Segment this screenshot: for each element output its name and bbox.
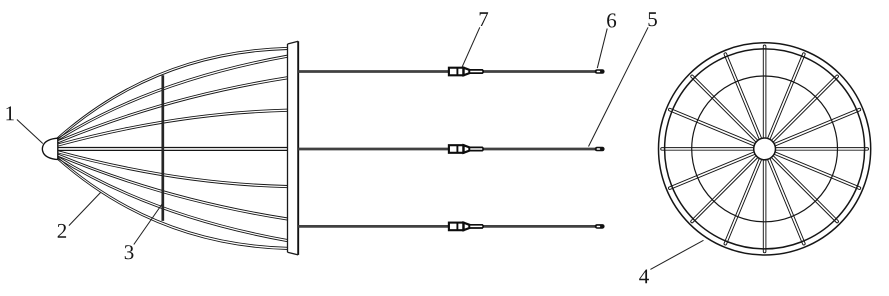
wheel spoke 3 xyxy=(771,75,839,143)
wheel spoke 9 xyxy=(763,159,766,253)
label 4 xyxy=(639,269,649,283)
rib k1 bottom (double line) xyxy=(57,156,289,242)
leader line 7 xyxy=(462,27,480,67)
leader line 5 xyxy=(589,27,649,146)
leader line 4 xyxy=(650,240,703,269)
connector sleeve 7 on rod 2 xyxy=(449,145,463,153)
wheel spoke 10 xyxy=(724,158,762,246)
wheel spoke 6 xyxy=(773,152,861,190)
rib k2 top (double line) xyxy=(57,77,289,144)
wheel spoke 15 xyxy=(690,75,758,143)
wheel inner ring circle xyxy=(692,76,838,222)
eyelet tip of rod 1 xyxy=(595,69,605,74)
wheel spoke 8 xyxy=(767,158,805,246)
rib outline top (double line) xyxy=(57,47,289,140)
wheel front view (part 4) xyxy=(659,43,871,255)
wheel spoke 4 xyxy=(773,108,861,146)
rib k3 bottom (double line) xyxy=(57,150,289,187)
wheel spoke 1 xyxy=(763,45,766,139)
label 7 xyxy=(480,12,489,26)
leader line 1 xyxy=(17,120,43,144)
label 1 xyxy=(6,106,13,120)
label 2 xyxy=(58,224,66,238)
leader line 3 xyxy=(134,202,164,245)
leader line 2 xyxy=(69,192,101,225)
wheel spoke 14 xyxy=(668,108,756,146)
traction rod 2 xyxy=(298,148,595,151)
rib outline bottom (double line) xyxy=(57,156,289,249)
axis line (double) xyxy=(57,148,289,151)
traction rod 1 xyxy=(298,70,595,73)
wheel spoke 12 xyxy=(668,152,756,190)
rib k2 bottom (double line) xyxy=(57,153,289,220)
eyelet tip of rod 2 xyxy=(595,147,605,152)
label 5 xyxy=(648,12,656,26)
wheel outer rim circle xyxy=(659,43,871,255)
connector sleeve 7 on rod 3 xyxy=(449,223,463,231)
rib k3 top (double line) xyxy=(57,109,289,146)
traction rod 3 xyxy=(298,225,595,228)
wheel spoke 16 xyxy=(724,52,762,140)
wheel spoke 7 xyxy=(771,155,839,223)
leader line 6 xyxy=(597,29,607,69)
nose tip cap (part 1) xyxy=(42,138,57,159)
label 6 xyxy=(607,13,616,27)
wheel hub xyxy=(754,138,776,160)
wheel spoke 2 xyxy=(767,52,805,140)
wheel spoke 13 xyxy=(661,148,755,151)
wheel spoke 5 xyxy=(775,148,869,151)
wheel rim inner circle xyxy=(665,49,865,249)
mouth ring of basket xyxy=(288,41,299,255)
rib k1 top (double line) xyxy=(57,55,289,141)
wheel spoke 11 xyxy=(690,155,758,223)
connector sleeve 7 on rod 1 xyxy=(449,68,463,76)
label 3 xyxy=(125,245,134,259)
circumferential hoop ring (part 3) xyxy=(161,75,164,221)
eyelet tip of rod 3 xyxy=(595,224,605,229)
